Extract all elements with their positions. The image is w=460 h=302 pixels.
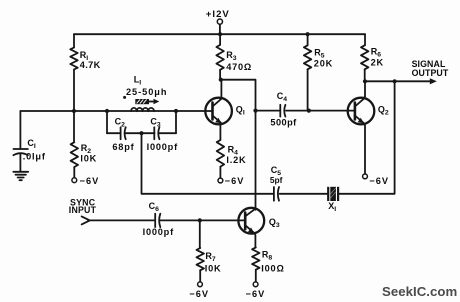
wire feedback: tap down and across to C5: [142, 133, 274, 194]
svg-text:.0Iμf: .0Iμf: [23, 152, 46, 162]
resistor R3: [216, 34, 252, 79]
junction tank centre tap: [139, 131, 143, 135]
junction R3 / Q1 collector / feedback: [219, 78, 223, 82]
svg-text:I0K: I0K: [80, 154, 97, 164]
capacitor C3: [147, 117, 178, 152]
svg-text:+I2V: +I2V: [206, 9, 230, 20]
junction R6 / Q2 collector / output: [363, 79, 367, 83]
capacitor C6: [143, 201, 174, 237]
svg-text:−6V: −6V: [189, 289, 209, 299]
wire tank left leg: [106, 111, 108, 133]
svg-text:C2: C2: [115, 117, 126, 129]
svg-text:5pf: 5pf: [270, 175, 283, 185]
wire tank bottom segments: [107, 132, 176, 134]
transistor Q1: [205, 98, 245, 125]
svg-text:C6: C6: [149, 201, 160, 213]
terminal -6V (R2): [72, 176, 99, 186]
svg-text:Q3: Q3: [269, 217, 280, 229]
svg-text:−6V: −6V: [369, 176, 389, 186]
resistor R1: [70, 34, 100, 111]
wire Q3 emitter lead: [254, 233, 255, 247]
wire Q1 collector: [220, 80, 222, 99]
crystal X1: [328, 187, 338, 213]
capacitor C5: [270, 165, 328, 201]
junction R5 top: [306, 32, 310, 36]
svg-text:−6V: −6V: [246, 289, 266, 299]
svg-text:I00Ω: I00Ω: [261, 264, 284, 274]
svg-text:500pf: 500pf: [270, 117, 297, 127]
wire top supply rail: [74, 33, 365, 35]
transistor Q2: [348, 98, 389, 125]
sync input arrow: [82, 216, 90, 224]
svg-text:68pf: 68pf: [112, 142, 134, 152]
resistor R4: [217, 123, 247, 178]
wire Q2 emitter lead: [364, 123, 365, 174]
svg-text:C3: C3: [150, 117, 161, 129]
junction tank left: [105, 109, 109, 113]
transistor Q3: [238, 208, 280, 234]
svg-text:XI: XI: [328, 201, 336, 213]
label SIGNAL OUTPUT: [412, 59, 449, 78]
svg-text:SeekIC.com: SeekIC.com: [382, 284, 457, 299]
junction R1/R2 on bus: [72, 109, 76, 113]
wire tank right leg: [175, 111, 177, 133]
inductor L1: [126, 75, 167, 112]
svg-text:R3: R3: [226, 50, 237, 62]
svg-text:470Ω: 470Ω: [226, 62, 252, 72]
svg-text:20K: 20K: [314, 58, 333, 68]
resistor R5: [304, 34, 333, 110]
svg-text:QI: QI: [236, 104, 245, 116]
wire signal output with arrow: [365, 78, 437, 84]
junction R5 bottom / Q2 base: [307, 109, 311, 113]
svg-text:I0K: I0K: [205, 264, 222, 274]
junction R7 / sync bus: [198, 218, 202, 222]
wire left bus (C1 to Q1 base): [20, 110, 212, 112]
svg-text:R7: R7: [205, 251, 216, 263]
wire to Q2 base: [309, 110, 355, 112]
svg-text:CI: CI: [27, 138, 36, 150]
L1 adjustable slug + arrow: [123, 96, 159, 104]
svg-text:I000pf: I000pf: [147, 142, 178, 152]
terminal -6V (R8): [246, 282, 266, 299]
wire sync bus: [88, 219, 245, 221]
junction +12V / R3: [218, 32, 222, 36]
svg-text:2K: 2K: [371, 58, 384, 68]
capacitor C4: [256, 91, 309, 128]
terminal -6V (R4): [218, 176, 244, 186]
svg-text:−6V: −6V: [80, 176, 100, 186]
svg-text:Q2: Q2: [378, 104, 389, 116]
svg-text:C4: C4: [277, 91, 288, 103]
resistor R2: [71, 111, 98, 178]
resistor R6: [361, 34, 384, 81]
wire Q2 collector: [364, 81, 365, 98]
svg-text:OUTPUT: OUTPUT: [412, 68, 449, 78]
svg-text:I000pf: I000pf: [143, 227, 174, 237]
wire collector branch over and down to Q3 collector: [221, 80, 256, 210]
junction tank right: [174, 109, 178, 113]
wire right feedback drop to X1: [339, 81, 394, 194]
terminal -6V (R7): [189, 282, 209, 299]
resistor R8: [252, 247, 285, 282]
ground: [13, 172, 28, 180]
capacitor C1: [13, 111, 45, 172]
terminal -6V (Q2): [363, 174, 389, 186]
power terminal +12V: [206, 9, 230, 34]
svg-text:I.2K: I.2K: [226, 155, 246, 165]
svg-text:4.7K: 4.7K: [80, 60, 101, 70]
svg-text:R8: R8: [262, 250, 273, 262]
junction C4 left: [253, 109, 257, 113]
capacitor C2: [112, 117, 134, 152]
svg-text:LI: LI: [134, 75, 142, 87]
svg-text:−6V: −6V: [225, 176, 245, 186]
svg-text:25-50μh: 25-50μh: [126, 87, 167, 97]
label SYNC INPUT: [69, 198, 97, 216]
junction output / right feedback drop: [393, 79, 397, 83]
resistor R7: [197, 220, 222, 282]
svg-text:INPUT: INPUT: [69, 205, 97, 215]
